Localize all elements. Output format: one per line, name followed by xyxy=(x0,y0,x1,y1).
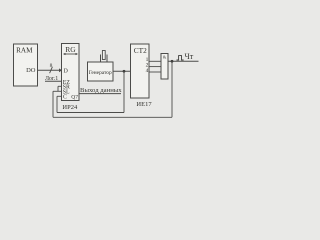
svg-text:Чт: Чт xyxy=(185,52,194,61)
junction read node xyxy=(171,60,174,63)
svg-text:RG: RG xyxy=(65,45,76,54)
pulse symbol xyxy=(177,56,184,60)
svg-text:ИЕ17: ИЕ17 xyxy=(136,101,152,108)
wire Q7 data output xyxy=(79,93,121,95)
svg-text:8: 8 xyxy=(50,63,53,69)
bidirectional shift arrow of RG xyxy=(63,53,78,55)
svg-text:4: 4 xyxy=(146,68,149,74)
wire read feedback bottom horizontal xyxy=(53,116,172,118)
svg-text:&: & xyxy=(163,54,167,59)
svg-text:Q7: Q7 xyxy=(71,94,78,100)
svg-text:DO: DO xyxy=(26,67,36,74)
RAM block D1 xyxy=(14,44,38,86)
generator G1 xyxy=(88,62,114,81)
counter CT2 (ИЕ17) xyxy=(131,44,150,98)
wire bus DO to D (8-bit) xyxy=(38,68,63,72)
shift register RG (ИР24) xyxy=(62,44,80,101)
wire CT2 output 2 to gate xyxy=(149,66,161,68)
svg-text:СТ2: СТ2 xyxy=(134,46,147,55)
svg-text:Генератор: Генератор xyxy=(89,70,112,76)
wire C vertical down xyxy=(56,96,58,112)
svg-text:ИР24: ИР24 xyxy=(62,104,78,111)
svg-text:RAM: RAM xyxy=(16,47,33,55)
wire SL vertical down xyxy=(52,91,54,117)
wire Лог.1 to EZ xyxy=(45,80,62,82)
wire CT2 output 1 to gate xyxy=(149,60,161,62)
wire C stub xyxy=(57,95,62,97)
wire SL stub xyxy=(53,90,62,92)
quartz crystal ZQ1 xyxy=(101,51,108,63)
junction clock node xyxy=(123,70,126,73)
wire SR stub xyxy=(58,85,62,87)
wire SR-SL jumper xyxy=(57,86,59,91)
svg-text:D: D xyxy=(64,68,69,74)
wire read vertical down xyxy=(171,61,173,117)
wire clock bottom horizontal xyxy=(57,112,124,114)
svg-text:C: C xyxy=(63,95,67,101)
wire generator output to CT2 xyxy=(113,70,131,72)
bus width slash mark xyxy=(50,67,53,73)
wire CT2 output 4 to gate xyxy=(149,71,161,73)
svg-text:Выход данных: Выход данных xyxy=(80,87,122,94)
AND gate DD1 xyxy=(161,54,168,80)
wire clock vertical down xyxy=(123,71,125,112)
wire gate output Чт xyxy=(168,60,199,62)
